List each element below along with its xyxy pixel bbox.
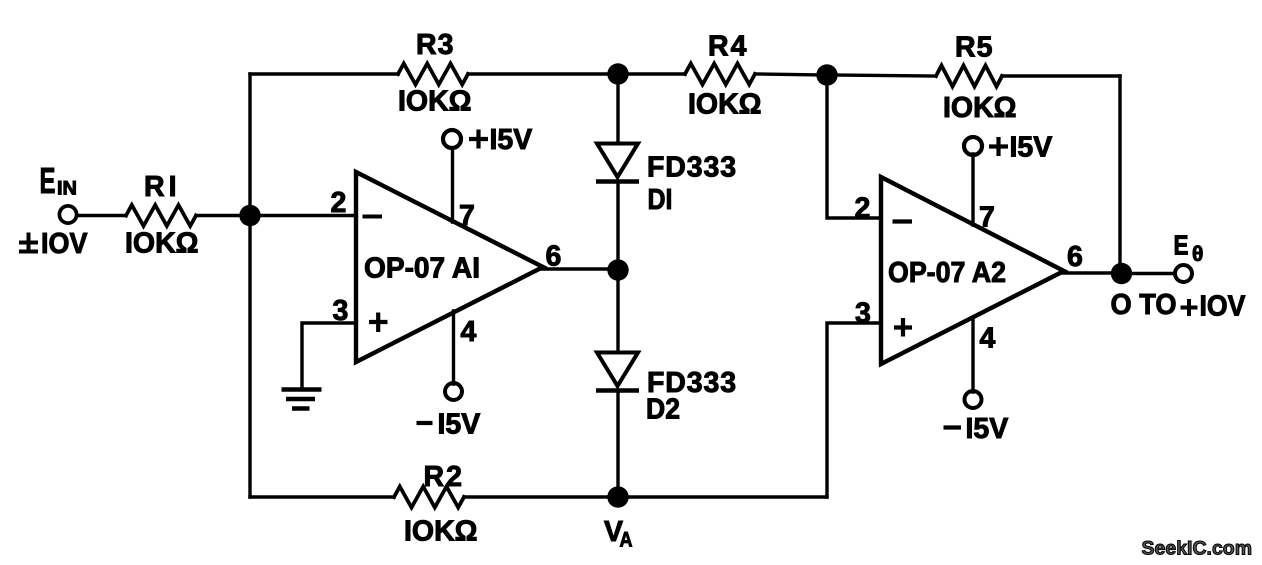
svg-text:OP-07 AI: OP-07 AI	[364, 253, 480, 285]
svg-text:IOV: IOV	[41, 228, 88, 260]
resistor R3	[398, 64, 468, 85]
resistor R1	[126, 205, 196, 226]
svg-text:IOV: IOV	[1200, 291, 1246, 323]
label -15V U2	[944, 425, 962, 429]
terminal +15V U2	[964, 137, 982, 155]
svg-text:IOKΩ: IOKΩ	[125, 228, 199, 260]
wire node to R4	[618, 72, 685, 75]
node middle junction	[607, 259, 628, 280]
svg-text:R2: R2	[424, 461, 464, 493]
svg-text:OP-07 A2: OP-07 A2	[888, 257, 1006, 289]
wire R4 to top right node	[755, 74, 827, 75]
wire middle node to D2	[616, 270, 619, 352]
wire output node to terminal	[1121, 272, 1174, 275]
op-amp U2 inverting input minus sign	[893, 219, 913, 223]
label +15V U2	[989, 144, 1008, 148]
wire feedback vertical right	[1118, 76, 1121, 274]
svg-text:I5V: I5V	[966, 413, 1009, 445]
wire D2 to bottom node	[616, 390, 619, 497]
svg-text:IN: IN	[57, 178, 77, 200]
svg-text:4: 4	[980, 323, 996, 355]
wire R1 to op-amp U1 pin 2	[196, 214, 354, 217]
wire U2 pin 4	[971, 318, 974, 392]
node top middle junction	[607, 63, 628, 84]
svg-text:3: 3	[855, 298, 871, 330]
wire U1 pin 7	[451, 148, 454, 222]
svg-text:IOKΩ: IOKΩ	[404, 516, 478, 548]
svg-text:4: 4	[461, 316, 477, 348]
wire bottom left segment	[250, 495, 394, 498]
svg-text:O TO: O TO	[1111, 289, 1177, 321]
node VA junction	[607, 486, 628, 507]
wire R5 to top right corner	[1002, 74, 1120, 77]
label ±10V	[19, 241, 38, 245]
wire U1 output	[541, 267, 618, 270]
svg-text:DI: DI	[648, 184, 673, 216]
svg-text:I5V: I5V	[490, 124, 533, 156]
svg-text:E: E	[40, 160, 56, 201]
wire bottom wire up to U2 pin 3	[827, 323, 879, 497]
svg-text:E: E	[1174, 230, 1189, 261]
input terminal E_IN	[59, 206, 76, 223]
node input junction	[239, 205, 260, 226]
wire left vertical	[248, 74, 251, 497]
wire top node down to diode D1	[616, 74, 619, 143]
svg-text:2: 2	[855, 193, 871, 225]
wire input terminal to R1	[77, 214, 126, 217]
terminal -15V U2	[965, 391, 982, 408]
op-amp U1 non-inverting input plus sign	[369, 320, 388, 324]
svg-text:2: 2	[331, 187, 347, 219]
ground	[282, 387, 322, 392]
svg-text:7: 7	[979, 202, 995, 234]
svg-text:D2: D2	[646, 394, 680, 426]
svg-text:RI: RI	[144, 171, 181, 203]
node output junction	[1111, 263, 1132, 284]
svg-text:IOKΩ: IOKΩ	[398, 86, 472, 118]
svg-text:IOKΩ: IOKΩ	[688, 89, 762, 121]
diode D1	[597, 144, 638, 178]
label +15V U1	[469, 137, 488, 141]
op-amp U2 non-inverting input plus sign	[894, 325, 912, 329]
resistor R4	[685, 64, 755, 85]
wire R2 to right bottom corner	[464, 495, 827, 498]
resistor R2	[394, 487, 464, 508]
wire top right node down to U2 pin 2	[827, 74, 879, 218]
label -15V U1	[417, 421, 433, 425]
svg-text:R3: R3	[416, 29, 454, 61]
svg-text:θ: θ	[1192, 243, 1203, 266]
wire top left segment	[250, 72, 398, 75]
svg-text:R4: R4	[708, 31, 748, 63]
wire D1 to middle node	[616, 181, 619, 270]
svg-text:SeekIC.com: SeekIC.com	[1142, 538, 1253, 560]
wire U1 pin 4	[452, 311, 455, 384]
diode D2	[597, 353, 638, 387]
svg-text:A: A	[620, 529, 633, 552]
svg-text:R5: R5	[955, 32, 993, 64]
svg-text:I5V: I5V	[1010, 132, 1053, 164]
resistor R5	[936, 66, 1002, 87]
op-amp U1 (OP-07 A1)	[356, 172, 543, 362]
op-amp U2 (OP-07 A2)	[881, 177, 1064, 364]
wire U2 pin 7	[971, 154, 974, 225]
node top right junction	[816, 64, 837, 85]
wire U2 output	[1061, 271, 1121, 274]
svg-text:7: 7	[459, 200, 475, 232]
terminal -15V U1	[445, 383, 462, 400]
svg-text:IOKΩ: IOKΩ	[943, 92, 1017, 124]
svg-text:I5V: I5V	[438, 409, 481, 441]
svg-text:FD333: FD333	[647, 152, 737, 184]
wire R3 to top middle node	[468, 72, 618, 75]
wire node to R5	[827, 75, 936, 76]
wire U1 pin 3 to ground	[302, 323, 354, 388]
svg-text:6: 6	[1067, 241, 1083, 273]
op-amp U1 inverting input minus sign	[363, 215, 383, 219]
terminal E_theta output	[1175, 265, 1192, 282]
terminal +15V U1	[443, 130, 461, 148]
